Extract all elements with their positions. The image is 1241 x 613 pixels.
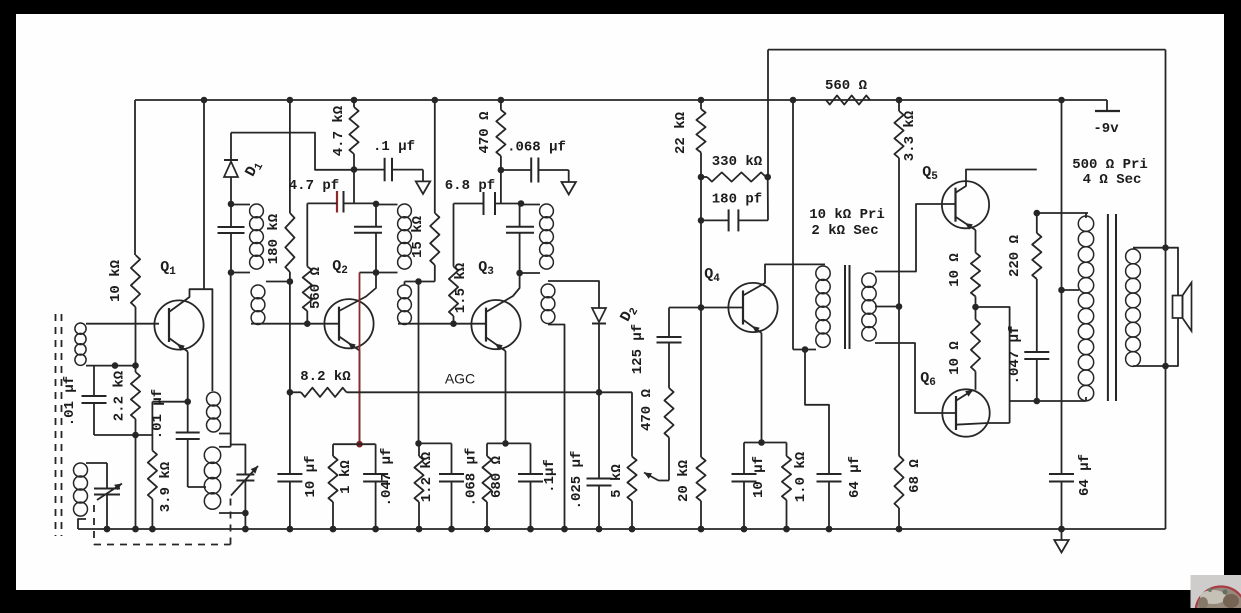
- wire C3 bottom to osc coil tap: [188, 486, 206, 488]
- capacitor .047uf C13: [1024, 351, 1049, 353]
- resistor R19 1.0k: [782, 456, 791, 500]
- capacitor 64uf C14: [1049, 473, 1074, 475]
- svg-text:10 Ω: 10 Ω: [947, 341, 963, 375]
- inductor T4 secondary: [862, 273, 876, 287]
- resistor R25 220: [1032, 233, 1041, 279]
- resistor R8 15k: [430, 213, 439, 265]
- svg-text:6.8 pf: 6.8 pf: [445, 178, 495, 194]
- wire Q5 emitter: [956, 217, 976, 230]
- node top bus junctions: [201, 97, 208, 104]
- svg-text:10 Ω: 10 Ω: [947, 253, 963, 287]
- battery -9V symbol: [1106, 100, 1108, 111]
- inductor L2 antenna coil B: [74, 463, 88, 477]
- inductor T1 primary: [250, 204, 264, 218]
- node T1 bottom: [228, 269, 235, 276]
- wire Q2 emitter drop: [359, 351, 361, 445]
- wire T2 bottom stub: [375, 233, 377, 273]
- capacitor T2 tuning: [354, 226, 382, 228]
- capacitor variable tuning C4: [236, 474, 254, 476]
- wire top bus left drop to 10k: [134, 100, 136, 255]
- node coil A bottom junction: [112, 362, 119, 369]
- inductor L1 antenna coil A: [75, 323, 86, 334]
- wire T3 sec top to D2: [548, 281, 599, 308]
- wire 470 bottom to 6.8pf wire: [500, 170, 502, 204]
- capacitor variable tuning C2: [94, 488, 120, 490]
- svg-text:330 kΩ: 330 kΩ: [712, 154, 763, 170]
- capacitor T1 tuning: [218, 226, 245, 228]
- capacitor 6.8pf: [483, 192, 485, 215]
- wire tap to 68: [898, 307, 900, 456]
- resistor R11 1k: [328, 456, 337, 502]
- svg-text:.1µf: .1µf: [542, 459, 558, 493]
- wire 125uf to Q4 base: [669, 307, 701, 309]
- svg-text:.068 µf: .068 µf: [507, 140, 566, 156]
- wire 10ohm to Q6 emitter: [975, 371, 977, 389]
- wire Q4 collector: [743, 264, 825, 295]
- svg-text:3.9 kΩ: 3.9 kΩ: [158, 461, 174, 512]
- wire bus feed to Q1 collector: [203, 100, 205, 289]
- resistor R6 4.7k: [349, 107, 358, 154]
- svg-text:470 Ω: 470 Ω: [477, 111, 493, 154]
- svg-text:20 kΩ: 20 kΩ: [676, 459, 692, 502]
- svg-text:.1 µf: .1 µf: [373, 139, 415, 155]
- inductor T4 primary: [816, 266, 830, 280]
- wire Q3 cluster bracket: [487, 442, 531, 444]
- resistor R5 560: [303, 266, 312, 311]
- wire tap into T5: [1062, 289, 1080, 291]
- inductor T2 secondary: [398, 285, 412, 299]
- wire Q2 emitter: [339, 336, 360, 350]
- svg-text:4 Ω Sec: 4 Ω Sec: [1083, 172, 1142, 188]
- arrow tuning C4: [231, 466, 258, 496]
- wire Q4 cluster bracket: [744, 442, 787, 444]
- wire output to T5: [1010, 400, 1037, 402]
- capacitor 10uf C11: [732, 473, 757, 475]
- resistor R15 470: [664, 388, 673, 437]
- transformer T5 core: [1107, 214, 1109, 401]
- resistor R23 10 upper: [971, 253, 980, 297]
- wire 4.7pf right: [344, 202, 377, 204]
- wire 180k column to bus: [289, 282, 291, 475]
- svg-text:.047 µf: .047 µf: [379, 448, 395, 507]
- node T3 bottom: [516, 270, 523, 277]
- wire R2 bottom to bus: [135, 419, 137, 529]
- svg-text:.025 µf: .025 µf: [569, 451, 585, 510]
- wire right side drop to bus: [1165, 50, 1167, 529]
- wire T4 sec top to Q5 base: [875, 204, 956, 272]
- resistor R7 470 top: [496, 110, 505, 156]
- wire 560 bottom: [306, 311, 308, 324]
- resistor R2 2.2k: [131, 372, 140, 419]
- antenna rod dashed lines: [55, 314, 57, 536]
- capacitor 125uf C10: [657, 336, 682, 338]
- capacitor .1uf bypass: [384, 158, 386, 182]
- capacitor .1uf C8: [518, 473, 543, 475]
- wire osc bracket to C4: [231, 445, 246, 475]
- wire speaker top: [1166, 248, 1179, 296]
- svg-text:22 kΩ: 22 kΩ: [673, 111, 689, 154]
- resistor R24 10 lower: [971, 320, 980, 372]
- svg-text:125 µf: 125 µf: [630, 324, 646, 374]
- diode D1: [230, 133, 232, 160]
- wire T1 secondary top: [266, 281, 290, 283]
- wire T5 sec top: [1133, 247, 1166, 249]
- wire T2sec cluster bracket: [419, 442, 452, 444]
- wire AGC red annotation: [359, 273, 361, 445]
- wire T5 sec bottom: [1133, 365, 1166, 367]
- svg-text:500 Ω Pri: 500 Ω Pri: [1072, 157, 1148, 173]
- svg-text:4.7 kΩ: 4.7 kΩ: [331, 105, 347, 156]
- svg-text:1.0 kΩ: 1.0 kΩ: [793, 451, 809, 502]
- inductor osc feedback coil: [207, 392, 221, 406]
- wire Q4 base: [701, 307, 743, 309]
- svg-text:560 Ω: 560 Ω: [308, 266, 324, 309]
- wire 3.9k top to Q1 emitter: [152, 401, 187, 403]
- arrow tuning C2: [97, 484, 122, 501]
- arrow pot wiper: [644, 473, 659, 481]
- node 470 bottom: [498, 167, 505, 174]
- resistor R12 1.2k: [414, 456, 423, 502]
- svg-text:4.7 pf: 4.7 pf: [289, 178, 339, 194]
- resistor R9 1.5k: [449, 267, 458, 317]
- svg-text:64 µf: 64 µf: [1077, 454, 1093, 496]
- capacitor .01uf C3: [176, 432, 200, 434]
- wire T1 bottom drop to osc: [230, 273, 232, 447]
- transistor Q5: [942, 181, 989, 228]
- svg-text:.01 µf: .01 µf: [150, 389, 166, 439]
- wire 180k bottom: [289, 272, 291, 282]
- inductor T3 primary: [540, 204, 554, 218]
- inductor osc tank coil: [204, 447, 220, 463]
- wire feedback rail left drop: [767, 50, 769, 177]
- wire 3.3k to tap: [898, 158, 900, 307]
- wire coil A bottom: [86, 365, 136, 367]
- resistor R10 8.2k: [290, 391, 301, 393]
- wire speaker bottom: [1166, 318, 1179, 366]
- node bus junctions: [104, 526, 111, 533]
- capacitor T3 tuning: [506, 226, 534, 228]
- wire Q4 base column: [700, 177, 702, 308]
- transistor Q3: [471, 300, 520, 349]
- svg-text:470 Ω: 470 Ω: [639, 388, 655, 431]
- capacitor .068uf C7: [439, 473, 464, 475]
- node T4 primary bottom: [802, 346, 809, 353]
- wire output node: [976, 307, 1010, 423]
- wire Q1 emitter: [169, 338, 188, 352]
- wire coil B top to C2: [86, 462, 107, 464]
- capacitor .025uf C9: [587, 478, 612, 480]
- resistor R20 560 rail: [826, 95, 870, 104]
- capacitor 10uf C5: [277, 473, 302, 475]
- wire 180k top: [289, 100, 291, 213]
- svg-text:680 Ω: 680 Ω: [489, 455, 505, 498]
- wire T4 center tap: [875, 306, 899, 308]
- wire T2 sec top feed from 15k: [434, 265, 436, 282]
- wire Q6 emitter arrow: [956, 390, 974, 401]
- wire Q5 collector to T5 top: [1037, 212, 1088, 214]
- wire top bus -9V rail: [135, 99, 1107, 101]
- avatar watermark: [1191, 575, 1241, 608]
- resistor R17 22k: [696, 109, 705, 153]
- svg-text:1.5 kΩ: 1.5 kΩ: [453, 262, 469, 313]
- wire R1 bottom: [135, 307, 137, 366]
- svg-text:180 pf: 180 pf: [712, 192, 762, 208]
- node T3 top: [518, 200, 525, 207]
- node T2 top: [373, 201, 380, 208]
- wire 4.7k node down to 4.7pf wire: [353, 170, 355, 204]
- svg-text:-9v: -9v: [1093, 121, 1119, 137]
- resistor R22 68: [894, 456, 903, 508]
- svg-text:64 µf: 64 µf: [847, 456, 863, 498]
- svg-text:AGC: AGC: [445, 371, 475, 387]
- wire 1.2k feed drop: [418, 282, 420, 444]
- resistor R4 180k: [285, 213, 294, 272]
- wire Q2 collector: [339, 273, 376, 312]
- capacitor .068uf bypass: [530, 158, 532, 183]
- wire Q3 collector: [486, 273, 520, 312]
- capacitor 4.7pf: [336, 191, 338, 213]
- resistor R1 10k: [131, 255, 140, 307]
- ground .1uf: [416, 181, 430, 194]
- wire T4 sec bottom to Q6 base: [875, 343, 956, 413]
- node 22k bottom: [698, 174, 705, 181]
- wire C2 bottom to bus: [106, 495, 108, 530]
- inductor T5 primary: [1078, 216, 1093, 231]
- wire D1 top: [231, 133, 354, 170]
- wire C4 bottom: [244, 481, 246, 514]
- wire 330k right to rail2: [767, 177, 769, 220]
- svg-text:1 kΩ: 1 kΩ: [338, 460, 354, 494]
- node 4.7k bottom: [351, 166, 358, 173]
- resistor R3 3.9k: [148, 451, 157, 500]
- svg-text:15 kΩ: 15 kΩ: [410, 215, 426, 258]
- node AGC left: [287, 389, 294, 396]
- svg-text:68 Ω: 68 Ω: [907, 459, 923, 493]
- wire Q5 collector: [956, 170, 1037, 193]
- resistor R13 680: [482, 456, 491, 502]
- wire T4 bottom branch to 64uf: [805, 350, 829, 475]
- svg-text:10 kΩ Pri: 10 kΩ Pri: [809, 207, 885, 223]
- transistor Q4: [728, 283, 777, 332]
- svg-text:10 µf: 10 µf: [303, 455, 319, 497]
- wire 4.7pf left: [307, 202, 337, 204]
- svg-text:10 kΩ: 10 kΩ: [108, 259, 124, 302]
- transformer T4 core: [844, 265, 846, 349]
- resistor R21 3.3k: [894, 111, 903, 158]
- wire AGC to volume pot: [631, 392, 633, 456]
- resistor R14 5k volume pot: [627, 457, 636, 502]
- svg-text:8.2 kΩ: 8.2 kΩ: [300, 369, 351, 385]
- wire 64uf column: [1061, 290, 1063, 474]
- transistor Q6: [942, 389, 989, 436]
- svg-text:10 µf: 10 µf: [751, 456, 767, 498]
- node AGC D2: [596, 389, 603, 396]
- svg-text:.01 µf: .01 µf: [62, 376, 78, 426]
- inductor T3 secondary: [541, 284, 555, 298]
- inductor T5 secondary: [1126, 249, 1141, 264]
- svg-text:2.2 kΩ: 2.2 kΩ: [112, 370, 128, 421]
- svg-text:560 Ω: 560 Ω: [825, 78, 868, 94]
- ground .068uf: [562, 182, 576, 195]
- svg-text:5 kΩ: 5 kΩ: [609, 464, 625, 498]
- svg-text:180 kΩ: 180 kΩ: [266, 213, 282, 264]
- wire Q4 emitter: [743, 320, 762, 333]
- inductor T1 secondary: [251, 285, 265, 299]
- wire rail drop to T5 tap: [1061, 100, 1063, 290]
- capacitor .01uf C1: [82, 395, 107, 397]
- wire C1 bottom to 3.9k: [94, 434, 152, 436]
- capacitor 180pf: [728, 209, 730, 231]
- capacitor 64uf C12: [817, 473, 842, 475]
- wire T3 sec bottom: [548, 325, 565, 530]
- wire Q3 emitter: [486, 337, 506, 351]
- svg-text:.047 µf: .047 µf: [1007, 326, 1023, 385]
- svg-text:220 Ω: 220 Ω: [1007, 234, 1023, 277]
- wire upper feedback rail: [768, 49, 1166, 51]
- diode D2: [592, 308, 606, 322]
- transistor Q1: [154, 300, 203, 349]
- resistor R18 330k: [701, 176, 707, 178]
- wire Q2 cluster bracket: [333, 443, 376, 445]
- wire coil B bottom to bus: [78, 519, 86, 529]
- wire Q6 collector: [956, 423, 1010, 425]
- wire osc coil upper bottom: [219, 433, 231, 435]
- svg-text:2 kΩ Sec: 2 kΩ Sec: [811, 223, 878, 239]
- transistor Q2: [324, 299, 373, 348]
- resistor R16 20k: [696, 457, 705, 501]
- wire Q1 collector: [169, 289, 212, 391]
- ground main: [1061, 529, 1063, 540]
- wire rail drop to T4: [792, 100, 794, 350]
- inductor T2 primary: [398, 204, 412, 218]
- dashed gang link: [93, 505, 95, 545]
- wire T2 secondary bottom to Q3 base: [398, 323, 486, 325]
- node 10ohm mid: [972, 304, 979, 311]
- speaker: [1173, 296, 1183, 319]
- svg-text:.068 µf: .068 µf: [464, 448, 480, 507]
- node T1 top: [228, 201, 235, 208]
- svg-text:3.3 kΩ: 3.3 kΩ: [902, 110, 918, 161]
- svg-text:1.2 kΩ: 1.2 kΩ: [419, 451, 435, 502]
- wire osc tank top: [219, 446, 231, 448]
- wire coil A top to Q1 base: [86, 323, 159, 325]
- wire ground bus: [78, 528, 1166, 530]
- wire 6.8pf left drop: [453, 204, 455, 267]
- wire T1 secondary bottom to Q2 base: [251, 323, 339, 325]
- wire osc coil bottom: [219, 512, 245, 514]
- capacitor .047uf C6: [363, 473, 388, 475]
- wire 1.5k bottom: [453, 316, 455, 324]
